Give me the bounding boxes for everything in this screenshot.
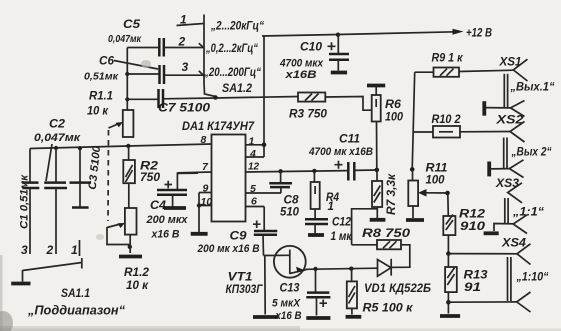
connector XS4 [501, 238, 549, 313]
ground SA1.1 [11, 282, 30, 286]
gang dashed link R1.1-R1.2 [107, 130, 110, 221]
pin 9 [199, 183, 212, 195]
wire R13 ground node to XS4 ground pin [448, 301, 516, 303]
svg-text:„Вых 2“: „Вых 2“ [511, 147, 552, 159]
svg-text:R11: R11 [426, 163, 448, 175]
connector XS1 [484, 57, 554, 117]
svg-text:750: 750 [140, 172, 161, 184]
svg-text:„1:1“: „1:1“ [512, 207, 544, 219]
resistor R2 [123, 144, 160, 208]
capacitor C12 [305, 209, 353, 243]
svg-text:6: 6 [251, 196, 257, 208]
svg-text:2: 2 [46, 243, 54, 257]
svg-text:„1:10“: „1:10“ [516, 272, 549, 284]
svg-text:4700 мк х16В: 4700 мк х16В [308, 146, 373, 158]
capacitor C10 [279, 33, 349, 82]
pin 4 [246, 148, 265, 160]
resistor R9 [415, 53, 514, 77]
switch SA1.1 [21, 243, 82, 282]
svg-text:4700 мкх: 4700 мкх [279, 58, 324, 70]
potentiometer R1.1 [87, 91, 133, 138]
svg-text:х16 В: х16 В [275, 310, 302, 322]
wire R12/R13 node to XS4 [446, 251, 517, 256]
resistor R10 [413, 114, 510, 138]
svg-text:„0,2...2кГц“: „0,2...2кГц“ [205, 43, 258, 55]
svg-text:VD1 КД522Б: VD1 КД522Б [364, 283, 431, 295]
svg-text:91: 91 [464, 282, 481, 294]
pin 1 [246, 136, 265, 148]
svg-text:С10: С10 [300, 42, 323, 54]
svg-text:4: 4 [249, 148, 256, 160]
svg-text:R1.2: R1.2 [124, 267, 150, 279]
svg-text:10 к: 10 к [87, 106, 109, 118]
svg-text:510: 510 [280, 207, 300, 219]
svg-text:100: 100 [385, 112, 404, 124]
resistor R8 [352, 209, 411, 250]
svg-text:XS3: XS3 [495, 178, 520, 190]
wire +12V rail [262, 28, 492, 40]
resistor R7 [370, 170, 398, 220]
svg-text:10 к: 10 к [126, 280, 149, 292]
connector XS3 [484, 178, 545, 234]
svg-text:R2: R2 [140, 161, 159, 173]
svg-text:С5: С5 [123, 19, 141, 31]
svg-text:5 мкХ: 5 мкХ [272, 298, 301, 310]
svg-text:С4: С4 [150, 200, 167, 212]
svg-text:С7 5100: С7 5100 [158, 103, 211, 115]
svg-text:„Поддиапазон“: „Поддиапазон“ [27, 303, 125, 318]
wire pins 1/4 to +12 rail [262, 36, 267, 157]
wire rail R9-R10-node [412, 72, 415, 169]
switch SA1.2 [177, 13, 265, 100]
svg-text:9: 9 [203, 183, 209, 195]
svg-text:0,51мк: 0,51мк [84, 71, 119, 83]
op-amp DA1 [182, 121, 255, 222]
svg-text:R8 750: R8 750 [362, 228, 411, 240]
svg-text:R6: R6 [385, 99, 402, 111]
pin 6 [246, 196, 265, 208]
svg-text:10: 10 [201, 196, 213, 208]
potentiometer R1.2 [107, 208, 150, 292]
node output after C11 [375, 168, 380, 173]
capacitor C11 [308, 134, 376, 181]
capacitor C7 [127, 89, 215, 115]
svg-text:С2: С2 [49, 119, 66, 131]
wire VT1 source line [306, 268, 378, 269]
svg-text:0,047мк: 0,047мк [34, 132, 82, 144]
svg-text:+12 В: +12 В [466, 28, 492, 40]
svg-text:С9: С9 [230, 231, 248, 243]
capacitor C9 [197, 207, 278, 256]
svg-text:12: 12 [248, 161, 259, 173]
resistor R11 trimmer [406, 163, 448, 221]
svg-text:XS4: XS4 [501, 238, 527, 250]
resistor R6 [367, 86, 404, 170]
svg-text:„Вых.1“: „Вых.1“ [510, 82, 555, 94]
node branch B junction [54, 146, 58, 150]
pin 5 [246, 183, 282, 195]
svg-text:1 мк: 1 мк [331, 231, 353, 243]
resistor R12 [443, 191, 485, 254]
svg-text:3: 3 [21, 243, 28, 257]
capacitor C1 [19, 149, 40, 255]
svg-text:R7 3,3к: R7 3,3к [386, 173, 398, 215]
capacitor C4 [146, 173, 198, 240]
transistor VT1 [226, 246, 307, 296]
svg-text:1: 1 [249, 136, 255, 148]
resistor R3 [289, 93, 372, 121]
svg-text:С6: С6 [99, 56, 115, 68]
svg-text:С13: С13 [280, 283, 301, 295]
svg-text:1: 1 [328, 201, 334, 213]
svg-text:SA1.2: SA1.2 [222, 83, 253, 95]
svg-text:R1.1: R1.1 [89, 91, 113, 103]
svg-text:1: 1 [71, 243, 78, 257]
svg-text:0,047мк: 0,047мк [108, 33, 142, 45]
svg-text:„2...20кГц“: „2...20кГц“ [210, 21, 264, 33]
capacitor C5 [108, 19, 204, 57]
diode VD1 [364, 245, 431, 295]
svg-text:х16В: х16В [284, 69, 316, 81]
pin 7 [177, 161, 211, 173]
svg-text:С8: С8 [284, 195, 300, 207]
svg-text:3: 3 [182, 60, 189, 74]
svg-text:8: 8 [201, 134, 207, 146]
resistor R4 [311, 169, 340, 213]
svg-text:100: 100 [426, 175, 446, 187]
pin 10 [199, 196, 212, 208]
ground VT1 gate [253, 256, 278, 318]
capacitor C3 [70, 144, 104, 256]
svg-text:910: 910 [460, 221, 486, 233]
wire SA1.2 common to R3 [216, 97, 299, 99]
svg-text:R12: R12 [459, 209, 486, 221]
svg-text:С12: С12 [332, 217, 352, 229]
svg-text:2: 2 [178, 35, 186, 49]
resistor R5 [346, 267, 414, 317]
scan shading bottom [0, 326, 300, 331]
svg-text:VT1: VT1 [228, 272, 253, 284]
pin 12 output wire [246, 161, 349, 173]
capacitor C13 [272, 267, 330, 322]
ground DA1 pins 9/10 [191, 193, 208, 234]
capacitor C2 [34, 119, 82, 255]
svg-text:DA1 К174УН7: DA1 К174УН7 [182, 121, 255, 133]
svg-text:КП303Г: КП303Г [226, 284, 264, 296]
svg-text:R10 2: R10 2 [432, 114, 462, 126]
svg-text:R9 1 к: R9 1 к [432, 53, 464, 65]
svg-text:SA1.1: SA1.1 [61, 288, 90, 300]
svg-text:200 мкх: 200 мкх [146, 214, 189, 226]
svg-text:R13: R13 [464, 270, 489, 282]
node branch C junction [78, 146, 82, 150]
svg-text:С1 0,51мк: С1 0,51мк [19, 174, 31, 229]
svg-text:х16 В: х16 В [151, 229, 180, 241]
svg-text:R3 750: R3 750 [289, 109, 328, 121]
svg-text:5: 5 [250, 183, 256, 195]
ground R1.2 [119, 255, 142, 259]
svg-text:С11: С11 [339, 134, 360, 146]
svg-text:R5 100 к: R5 100 к [363, 303, 414, 315]
wire input top rail [30, 144, 211, 149]
connector XS2 [489, 115, 552, 178]
svg-text:200 мк х16 В: 200 мк х16 В [197, 243, 260, 255]
capacitor C6 [84, 56, 204, 85]
svg-text:„20...200Гц“: „20...200Гц“ [203, 67, 261, 79]
wire main vertical to R1.1 [126, 48, 128, 111]
resistor R13 [440, 254, 488, 316]
capacitor C8 [269, 169, 299, 218]
